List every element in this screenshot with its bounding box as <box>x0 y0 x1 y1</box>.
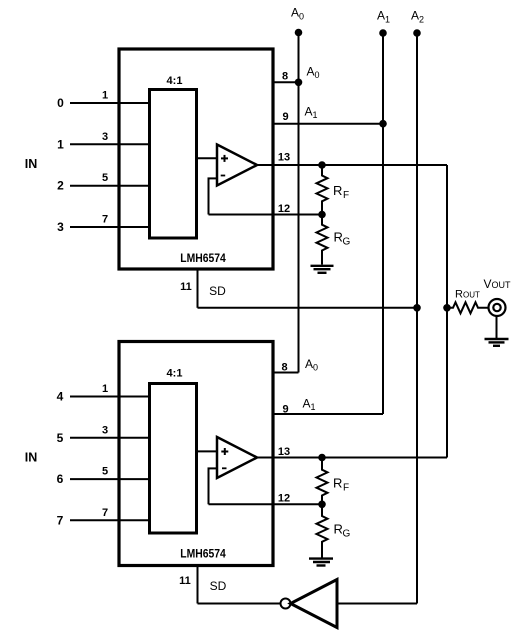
svg-text:OUT: OUT <box>463 291 480 300</box>
wire input 3 (U1) <box>70 226 148 228</box>
label VOUT <box>484 277 512 291</box>
svg-text:1: 1 <box>57 137 64 151</box>
svg-text:5: 5 <box>102 466 108 478</box>
svg-text:1: 1 <box>102 90 108 102</box>
svg-text:3: 3 <box>57 220 64 234</box>
label A0 at pin 8 (U2) <box>305 357 318 373</box>
resistor RF (U1) <box>317 165 350 215</box>
svg-text:IN: IN <box>25 157 38 171</box>
svg-text:9: 9 <box>282 404 288 416</box>
svg-text:R: R <box>334 230 343 245</box>
svg-text:R: R <box>334 522 343 537</box>
wire connector to ground <box>496 316 498 338</box>
wire mux output to op-amp + (U1) <box>197 157 218 159</box>
resistor RG (U1) <box>317 215 351 265</box>
svg-text:2: 2 <box>419 15 424 25</box>
wire pin 13 output (U1) <box>257 164 447 166</box>
svg-text:13: 13 <box>278 152 290 164</box>
junction output/ROUT <box>443 304 451 312</box>
junction pin13/RF (U2) <box>318 454 326 462</box>
svg-text:13: 13 <box>278 446 290 458</box>
node A1 terminal label <box>377 9 390 25</box>
svg-text:SD: SD <box>210 579 227 593</box>
wire feedback vertical (U2) <box>208 468 210 504</box>
svg-text:R: R <box>333 183 342 198</box>
ground (RG top) <box>311 266 334 273</box>
wire SD pin 11 vertical (U1) <box>197 269 199 308</box>
label A1 at pin 9 (U2) <box>303 397 316 413</box>
svg-text:9: 9 <box>282 111 288 123</box>
ground (RG bottom) <box>309 559 333 566</box>
svg-text:4:1: 4:1 <box>167 75 183 87</box>
svg-text:IN: IN <box>25 451 38 465</box>
svg-text:7: 7 <box>102 507 108 519</box>
svg-text:A: A <box>305 357 313 371</box>
svg-text:4: 4 <box>57 390 64 404</box>
IC U2 mux 4:1 inner box <box>150 384 197 534</box>
wire A2 vertical bus <box>416 33 418 604</box>
wire SD pin 11 vertical (U2) <box>197 566 199 604</box>
connector VOUT <box>489 299 506 316</box>
IC U1 mux 4:1 inner box <box>150 90 197 239</box>
svg-text:0: 0 <box>315 70 320 80</box>
svg-text:1: 1 <box>311 402 316 412</box>
svg-text:G: G <box>343 529 351 540</box>
svg-text:OUT: OUT <box>492 280 512 290</box>
node A1 terminal dot <box>379 29 387 37</box>
label A1 at pin 9 (U1) <box>305 105 318 121</box>
svg-text:8: 8 <box>281 362 287 374</box>
wire feedback stub to op-amp minus (U2) <box>208 467 218 469</box>
junction pin12/RF/RG (U1) <box>318 211 326 219</box>
node A0 terminal dot <box>295 29 303 37</box>
wire A1 vertical bus <box>382 33 384 414</box>
svg-text:0: 0 <box>57 96 64 110</box>
wire mux output to op-amp + (U2) <box>197 450 218 452</box>
op-amp A1a (U1) <box>217 145 257 186</box>
svg-text:A: A <box>307 65 315 79</box>
ground (VOUT connector) <box>485 339 509 346</box>
inverter U3 triangle <box>291 580 338 628</box>
wire feedback stub to op-amp minus (U1) <box>208 177 218 179</box>
svg-text:R: R <box>455 289 463 301</box>
svg-text:12: 12 <box>278 493 290 505</box>
wire pin 13 output (U2) <box>257 457 447 459</box>
wire input 0 (U1) <box>70 102 148 104</box>
wire pin 8 to A0 (U1) <box>273 81 299 83</box>
svg-text:V: V <box>484 277 492 291</box>
wire inverter input to A2 <box>337 603 417 605</box>
wire SD to A2 (U1) <box>198 307 418 309</box>
junction pin9/A1 <box>379 120 387 128</box>
resistor RF (U2) <box>317 458 350 505</box>
svg-text:3: 3 <box>102 131 108 143</box>
svg-text:F: F <box>343 190 349 201</box>
wire input 2 (U1) <box>70 185 148 187</box>
svg-text:11: 11 <box>179 575 191 587</box>
wire input 1 (U1) <box>70 143 148 145</box>
svg-text:8: 8 <box>282 71 288 83</box>
wire pin 8 to A0 (U2) <box>273 372 299 374</box>
wire pin 9 to A1 (U2) <box>273 413 383 415</box>
wire input 5 (U2) <box>70 437 148 439</box>
svg-text:1: 1 <box>385 15 390 25</box>
node A0 terminal label <box>291 6 304 22</box>
svg-text:SD: SD <box>209 284 226 298</box>
node A2 terminal dot <box>413 29 421 37</box>
svg-text:A: A <box>411 9 419 23</box>
wire output bus vertical <box>446 165 448 458</box>
svg-text:0: 0 <box>313 363 318 373</box>
svg-text:11: 11 <box>180 281 192 293</box>
IC U1 LMH6574 outer box <box>119 49 273 269</box>
wire input 6 (U2) <box>70 478 148 480</box>
inverter U3 bubble <box>281 599 291 609</box>
resistor RG (U2) <box>317 504 351 557</box>
svg-text:5: 5 <box>102 172 108 184</box>
wire A0 vertical bus <box>298 33 300 373</box>
svg-text:6: 6 <box>57 472 64 486</box>
svg-text:1: 1 <box>102 383 108 395</box>
svg-text:A: A <box>303 397 311 411</box>
svg-text:G: G <box>343 237 351 248</box>
wire input 4 (U2) <box>70 396 148 398</box>
svg-text:7: 7 <box>57 513 64 527</box>
svg-text:4:1: 4:1 <box>167 368 183 380</box>
label A0 at pin 8 (U1) <box>307 65 320 81</box>
resistor ROUT <box>447 289 488 314</box>
wire pin 9 to A1 (U1) <box>273 123 383 125</box>
wire feedback vertical (U1) <box>208 178 210 214</box>
svg-text:1: 1 <box>313 110 318 120</box>
junction SD/A2 <box>413 304 421 312</box>
svg-text:A: A <box>377 9 385 23</box>
svg-text:5: 5 <box>57 431 64 445</box>
wire SD to inverter output (U2) <box>198 603 281 605</box>
wire pin 12 feedback horizontal (U1) <box>209 214 323 216</box>
svg-text:12: 12 <box>278 203 290 215</box>
op-amp A1b (U2) <box>217 437 257 478</box>
svg-text:2: 2 <box>57 179 64 193</box>
svg-text:A: A <box>305 105 313 119</box>
svg-text:LMH6574: LMH6574 <box>180 251 226 265</box>
junction pin8/A0 <box>295 79 303 87</box>
IC U2 LMH6574 outer box <box>119 342 273 566</box>
junction pin13/RF (U1) <box>318 161 326 169</box>
svg-text:LMH6574: LMH6574 <box>180 547 226 561</box>
svg-text:F: F <box>343 483 349 494</box>
svg-text:R: R <box>333 476 342 491</box>
svg-text:3: 3 <box>102 424 108 436</box>
svg-text:0: 0 <box>299 12 304 22</box>
svg-text:A: A <box>291 6 299 20</box>
svg-text:7: 7 <box>102 214 108 226</box>
wire pin 12 feedback horizontal (U2) <box>209 503 323 505</box>
wire input 7 (U2) <box>70 519 148 521</box>
node A2 terminal label <box>411 9 424 25</box>
junction pin12/RF/RG (U2) <box>318 501 326 509</box>
